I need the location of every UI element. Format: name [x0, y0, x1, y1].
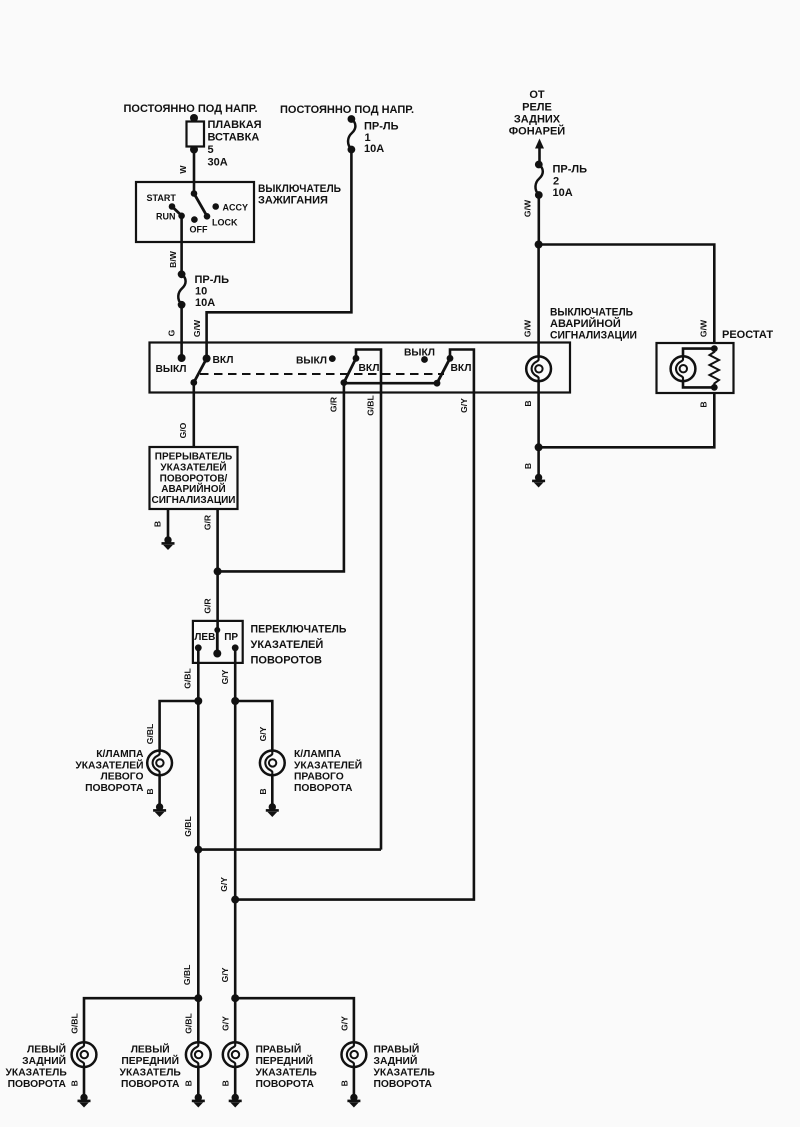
svg-text:ВКЛ: ВКЛ — [213, 355, 234, 366]
wire branch to right rear lamp — [235, 998, 354, 1042]
wire G/Y turn switch down — [234, 648, 237, 1043]
ignition switch box U1 — [136, 182, 254, 242]
hazard indicator lamp L1 — [526, 356, 551, 381]
svg-text:К/ЛАМПА: К/ЛАМПА — [294, 749, 342, 760]
svg-text:ПОВОРОТОВ: ПОВОРОТОВ — [251, 655, 322, 667]
svg-text:ACCY: ACCY — [223, 203, 249, 213]
rheostat lamp L2 wiring — [683, 349, 714, 388]
right front lamp name label — [256, 1043, 318, 1091]
svg-text:G: G — [166, 329, 176, 336]
svg-text:ПРАВЫЙ: ПРАВЫЙ — [256, 1043, 302, 1056]
svg-text:G/O: G/O — [178, 422, 188, 438]
wire G/W fuse 1 to hazard switch — [207, 150, 352, 359]
wire hazard lamp B down — [537, 393, 540, 475]
svg-text:АВАРИЙНОЙ: АВАРИЙНОЙ — [550, 317, 621, 330]
svg-text:ПОВОРОТА: ПОВОРОТА — [8, 1079, 67, 1090]
wire G/W fuse 2 down to junction — [537, 195, 540, 245]
wire hazard G/BL link — [198, 393, 381, 850]
svg-text:G/W: G/W — [192, 319, 202, 337]
svg-text:G/Y: G/Y — [219, 877, 229, 892]
svg-text:ВСТАВКА: ВСТАВКА — [208, 132, 260, 144]
resistor zigzag — [710, 349, 720, 388]
svg-text:ЗАДНИХ: ЗАДНИХ — [514, 114, 561, 126]
svg-text:ПОВОРОТА: ПОВОРОТА — [121, 1079, 180, 1090]
svg-text:G/BL: G/BL — [182, 965, 192, 986]
node: from rear lights relay label — [509, 89, 566, 138]
hazard switch contact 3 ВЫКЛ dot — [421, 356, 428, 363]
flasher unit name label — [151, 452, 235, 507]
svg-text:B/W: B/W — [168, 250, 178, 268]
turn switch input node — [214, 627, 220, 633]
svg-text:G/R: G/R — [203, 598, 213, 614]
ground right rear lamp — [347, 1094, 360, 1108]
ground right indicator — [266, 803, 279, 817]
wire contact 2 to G/BL drop — [356, 350, 381, 393]
hazard switch contact 1 ВЫКЛ — [178, 354, 186, 362]
svg-text:B: B — [69, 1080, 79, 1086]
svg-text:УКАЗАТЕЛЬ: УКАЗАТЕЛЬ — [120, 1068, 182, 1079]
svg-text:G/W: G/W — [523, 319, 533, 337]
wire branch to left rear lamp — [84, 998, 198, 1042]
wire pivot 2 down — [343, 383, 346, 393]
svg-text:ПОВОРОТА: ПОВОРОТА — [294, 783, 353, 794]
svg-text:ЛЕВЫЙ: ЛЕВЫЙ — [131, 1043, 170, 1056]
svg-text:B: B — [221, 1080, 231, 1086]
wire W from fusible link to ignition switch — [193, 150, 196, 194]
fuse 10 value label — [195, 274, 230, 309]
svg-text:УКАЗАТЕЛЕЙ: УКАЗАТЕЛЕЙ — [160, 460, 226, 473]
wire left indicator to ground — [158, 775, 161, 804]
svg-text:ПОВОРОТА: ПОВОРОТА — [256, 1079, 315, 1090]
svg-text:G/Y: G/Y — [220, 967, 230, 982]
svg-text:G/Y: G/Y — [339, 1016, 349, 1031]
fuse ПР-ЛЬ 10 10A — [178, 270, 186, 308]
svg-text:ПР-ЛЬ: ПР-ЛЬ — [553, 164, 588, 176]
arrow to rear lights relay — [535, 139, 544, 164]
svg-text:B: B — [699, 401, 709, 407]
svg-text:ЛЕВ: ЛЕВ — [194, 632, 215, 643]
svg-text:СИГНАЛИЗАЦИИ: СИГНАЛИЗАЦИИ — [550, 330, 637, 342]
node junction right indicator branch — [231, 697, 239, 705]
svg-text:ПЛАВКАЯ: ПЛАВКАЯ — [208, 119, 262, 131]
wire G/O hazard switch to flasher — [193, 393, 196, 448]
svg-text:РЕОСТАТ: РЕОСТАТ — [722, 329, 773, 341]
hazard switch pivot 1 — [190, 379, 197, 386]
wire B to rheostat return — [539, 393, 715, 447]
svg-text:B: B — [153, 521, 163, 527]
fuse ПР-ЛЬ 2 10A — [535, 161, 543, 199]
svg-text:ПОСТОЯННО ПОД НАПР.: ПОСТОЯННО ПОД НАПР. — [280, 104, 414, 116]
wire G fuse 10 to hazard switch — [180, 306, 183, 358]
left rear turn lamp L5 — [72, 1042, 97, 1067]
svg-text:ВЫКЛ: ВЫКЛ — [296, 356, 327, 367]
svg-text:ЗАДНИЙ: ЗАДНИЙ — [374, 1054, 418, 1067]
hazard switch contact 1 ВКЛ — [203, 355, 211, 363]
wire hazard lamp to box bottom — [537, 381, 540, 392]
svg-text:УКАЗАТЕЛЬ: УКАЗАТЕЛЬ — [6, 1068, 68, 1079]
hazard switch pivot 2 — [341, 379, 348, 386]
right rear lamp name label — [374, 1043, 436, 1091]
svg-text:ПР-ЛЬ: ПР-ЛЬ — [364, 121, 399, 133]
svg-text:G/Y: G/Y — [220, 669, 230, 684]
svg-text:УКАЗАТЕЛЕЙ: УКАЗАТЕЛЕЙ — [251, 638, 324, 651]
svg-text:ОТ: ОТ — [529, 89, 545, 101]
svg-text:G/BL: G/BL — [145, 724, 155, 745]
svg-text:ПРАВЫЙ: ПРАВЫЙ — [374, 1043, 420, 1056]
fusible link FL 5 30A — [187, 114, 205, 154]
turn signal switch name label — [251, 624, 347, 667]
svg-text:ПОВОРОТА: ПОВОРОТА — [374, 1079, 433, 1090]
wire B/W ignition to fuse 10 — [180, 216, 183, 274]
node junction B — [535, 443, 543, 451]
wire G/R junction to hazard pivot drop — [218, 393, 344, 572]
hazard switch contact 2 ВКЛ — [353, 355, 360, 362]
ignition switch position labels — [147, 193, 249, 235]
hazard switch lever 1 — [194, 359, 207, 383]
svg-text:B: B — [145, 788, 155, 794]
ground left front lamp — [192, 1094, 205, 1108]
svg-text:ЗАЖИГАНИЯ: ЗАЖИГАНИЯ — [258, 195, 328, 207]
hazard switch mechanical link (dashed) — [200, 373, 444, 375]
svg-text:G/Y: G/Y — [459, 398, 469, 413]
node junction left indicator branch — [194, 697, 202, 705]
fuse 1 value label — [364, 121, 399, 156]
svg-text:G/BL: G/BL — [366, 395, 376, 416]
node junction left rear branch — [194, 994, 202, 1002]
left rear lamp name label — [6, 1043, 68, 1091]
hazard switch lever 2 — [344, 358, 356, 382]
svg-text:ПЕРЕДНИЙ: ПЕРЕДНИЙ — [256, 1054, 314, 1067]
svg-text:УКАЗАТЕЛЬ: УКАЗАТЕЛЬ — [374, 1068, 436, 1079]
rheostat box R1 — [657, 343, 734, 393]
svg-text:ПОВОРОТА: ПОВОРОТА — [85, 783, 144, 794]
svg-text:ВЫКЛ: ВЫКЛ — [156, 364, 187, 375]
node junction G/W — [535, 241, 543, 249]
right turn indicator lamp L4 — [260, 751, 285, 776]
rheostat bottom node — [711, 384, 718, 391]
wire contact 3 to G/Y drop — [450, 350, 474, 393]
fusible link value label — [208, 119, 262, 169]
svg-text:ВЫКЛ: ВЫКЛ — [404, 348, 435, 359]
svg-text:УКАЗАТЕЛЕЙ: УКАЗАТЕЛЕЙ — [75, 758, 143, 771]
hazard switch name label — [550, 307, 637, 342]
svg-text:ЗАДНИЙ: ЗАДНИЙ — [22, 1054, 66, 1067]
svg-text:АВАРИЙНОЙ: АВАРИЙНОЙ — [161, 482, 225, 495]
wire right rear lamp to ground — [353, 1067, 356, 1095]
svg-text:ПР-ЛЬ: ПР-ЛЬ — [195, 274, 230, 286]
svg-text:G/W: G/W — [523, 199, 533, 217]
svg-text:2: 2 — [553, 176, 559, 188]
svg-text:START: START — [147, 193, 177, 203]
node junction hazard G/Y join — [231, 896, 239, 904]
left front lamp name label — [120, 1043, 182, 1091]
wire pivot link 2-3 — [344, 382, 437, 385]
svg-text:УКАЗАТЕЛЬ: УКАЗАТЕЛЬ — [256, 1068, 318, 1079]
svg-text:30А: 30А — [208, 157, 228, 169]
svg-text:RUN: RUN — [156, 212, 176, 222]
ground left indicator — [153, 803, 166, 817]
flasher unit box U2 — [150, 447, 238, 509]
node junction right rear branch — [231, 994, 239, 1002]
svg-text:10А: 10А — [364, 143, 384, 155]
svg-text:10А: 10А — [195, 297, 215, 309]
hazard switch lever 3 — [437, 358, 450, 383]
ground hazard lamp — [532, 474, 545, 488]
wire branch to right indicator lamp — [235, 701, 272, 751]
svg-text:ПОСТОЯННО ПОД НАПР.: ПОСТОЯННО ПОД НАПР. — [124, 103, 258, 115]
wire right indicator to ground — [271, 775, 274, 804]
svg-text:ПРАВОГО: ПРАВОГО — [294, 772, 344, 783]
turn switch contact ПР — [232, 644, 239, 651]
svg-text:ЛЕВОГО: ЛЕВОГО — [101, 772, 144, 783]
wire right front lamp to ground — [234, 1067, 237, 1095]
svg-text:G/BL: G/BL — [184, 1013, 194, 1034]
turn signal switch box S2 — [193, 621, 243, 663]
node junction hazard G/BL join — [194, 846, 202, 854]
svg-text:ПОВОРОТОВ/: ПОВОРОТОВ/ — [160, 473, 228, 484]
svg-text:ПЕРЕДНИЙ: ПЕРЕДНИЙ — [121, 1054, 179, 1067]
hazard switch contact 3 ВКЛ — [447, 355, 454, 362]
turn switch lever — [216, 630, 219, 653]
svg-text:LOCK: LOCK — [212, 218, 238, 228]
rheostat lamp L2 — [671, 356, 696, 381]
svg-text:5: 5 — [208, 144, 214, 156]
svg-text:СИГНАЛИЗАЦИИ: СИГНАЛИЗАЦИИ — [151, 495, 235, 506]
svg-text:OFF: OFF — [190, 225, 208, 235]
svg-text:УКАЗАТЕЛЕЙ: УКАЗАТЕЛЕЙ — [294, 758, 362, 771]
svg-text:РЕЛЕ: РЕЛЕ — [522, 102, 552, 114]
right front turn lamp L7 — [223, 1042, 248, 1067]
svg-text:B: B — [523, 400, 533, 406]
svg-text:W: W — [178, 165, 188, 174]
svg-text:ВЫКЛЮЧАТЕЛЬ: ВЫКЛЮЧАТЕЛЬ — [258, 183, 341, 195]
wire left rear lamp to ground — [83, 1067, 86, 1095]
svg-text:ВКЛ: ВКЛ — [359, 363, 380, 374]
left front turn lamp L6 — [186, 1042, 211, 1067]
left indicator name label — [75, 749, 144, 794]
turn switch contact ЛЕВ — [195, 644, 202, 651]
svg-text:B: B — [523, 463, 533, 469]
svg-text:К/ЛАМПА: К/ЛАМПА — [96, 749, 144, 760]
wire G/BL turn switch down — [197, 648, 200, 1043]
node junction G/R — [214, 567, 222, 575]
rheostat top node — [711, 345, 718, 352]
svg-text:ФОНАРЕЙ: ФОНАРЕЙ — [509, 125, 566, 138]
wire branch to left indicator lamp — [160, 701, 199, 751]
svg-text:G/W: G/W — [699, 319, 709, 337]
turn switch lever end — [213, 650, 221, 658]
svg-text:G/Y: G/Y — [258, 726, 268, 741]
hazard switch pivot 3 — [434, 380, 441, 387]
svg-text:ВКЛ: ВКЛ — [451, 363, 472, 374]
wire pivot 1 down — [193, 383, 196, 393]
svg-text:B: B — [184, 1080, 194, 1086]
right rear turn lamp L8 — [342, 1042, 367, 1067]
ignition switch contacts and levers — [169, 190, 219, 223]
wire G/W junction to rheostat — [539, 245, 715, 344]
hazard switch box S1 — [150, 343, 571, 393]
ground flasher — [162, 536, 175, 550]
svg-text:G/BL: G/BL — [69, 1013, 79, 1034]
fuse ПР-ЛЬ 1 10A — [348, 115, 356, 153]
wire hazard G/Y link — [235, 393, 474, 900]
fuse 2 value label — [553, 164, 588, 200]
svg-text:10А: 10А — [553, 187, 573, 199]
svg-text:ПР: ПР — [224, 632, 238, 643]
svg-text:ЛЕВЫЙ: ЛЕВЫЙ — [27, 1043, 66, 1056]
hazard switch contact 2 ВЫКЛ dot — [329, 355, 336, 362]
ignition switch label — [258, 183, 341, 207]
ground left rear lamp — [78, 1094, 91, 1108]
wire B flasher to ground — [167, 509, 170, 537]
svg-text:B: B — [258, 788, 268, 794]
svg-text:G/BL: G/BL — [183, 668, 193, 689]
ground right front lamp — [229, 1094, 242, 1108]
svg-text:G/Y: G/Y — [221, 1016, 231, 1031]
right indicator name label — [294, 749, 362, 794]
wire G/R flasher down — [216, 509, 219, 630]
wire left front lamp to ground — [197, 1067, 200, 1095]
svg-text:ВЫКЛЮЧАТЕЛЬ: ВЫКЛЮЧАТЕЛЬ — [550, 307, 633, 319]
svg-text:G/BL: G/BL — [183, 816, 193, 837]
svg-text:G/R: G/R — [329, 396, 339, 412]
wire G/W junction to hazard lamp — [537, 245, 540, 357]
svg-text:B: B — [339, 1080, 349, 1086]
svg-text:ПЕРЕКЛЮЧАТЕЛЬ: ПЕРЕКЛЮЧАТЕЛЬ — [251, 624, 347, 636]
svg-text:ПРЕРЫВАТЕЛЬ: ПРЕРЫВАТЕЛЬ — [155, 452, 232, 463]
svg-text:G/R: G/R — [203, 514, 213, 530]
left turn indicator lamp L3 — [147, 751, 172, 776]
svg-text:10: 10 — [195, 286, 207, 298]
